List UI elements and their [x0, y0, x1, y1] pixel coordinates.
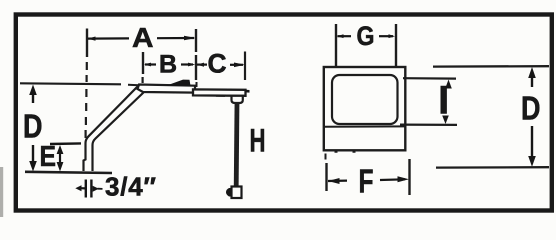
dimension D-left down arrow [32, 145, 34, 162]
clevis at arm end [232, 96, 243, 103]
scan smudge left edge [0, 167, 3, 217]
svg-text:B: B [159, 51, 177, 79]
dimension G right tick [395, 24, 397, 66]
dimension F left tick [325, 163, 327, 191]
dimension 3/4 left outward arrow [75, 185, 81, 191]
datum dashed line down to leg [84, 89, 87, 138]
foot tabs under box [336, 151, 354, 153]
svg-text:E: E [40, 141, 57, 173]
dimension F line with arrows [328, 180, 347, 183]
svg-text:C: C [208, 49, 227, 79]
separator line on box [324, 125, 405, 127]
3/4 right outward arrow [93, 186, 99, 192]
border frame [16, 15, 552, 211]
bottom reference line [25, 172, 112, 173]
dimension C line with arrows [197, 63, 207, 65]
reference line dash to arm tip [128, 84, 139, 86]
clamp wedge (solid) on arm [166, 80, 191, 86]
dimension A left tick dashed extension [85, 62, 87, 82]
svg-text:3/4″: 3/4″ [105, 172, 157, 202]
diagonal strut [84, 86, 139, 171]
hanger rod [234, 103, 240, 187]
svg-text:D: D [23, 108, 43, 145]
3/4 bar left [85, 180, 87, 198]
dimension E up arrow [57, 145, 64, 154]
tick between B and C [195, 55, 197, 80]
svg-text:D: D [521, 90, 541, 127]
dimension D-right up arrow [528, 67, 536, 78]
dimension A/B shared tick [195, 29, 197, 52]
vertical leg with foot [93, 93, 144, 172]
I lower extension line [400, 123, 457, 126]
dimension D-right down arrow [531, 126, 533, 157]
dimension D-left up arrow [29, 85, 37, 96]
D-right top reference line [433, 65, 549, 68]
dimension E top tick [50, 142, 81, 145]
dimension A left tick [86, 29, 88, 58]
dimension G line with arrows [338, 35, 352, 37]
dimension C right tick [244, 52, 246, 81]
dimension B left tick [142, 52, 144, 74]
dimension B left tick dash [142, 77, 144, 83]
3/4 bar right [90, 180, 92, 198]
svg-text:H: H [250, 123, 266, 159]
dimension E down arrow [57, 162, 64, 172]
weld dash under arm [216, 95, 225, 97]
dimension F right tick [408, 159, 410, 195]
mirror glass rounded rect [332, 75, 398, 124]
dimension A line with arrows [88, 37, 129, 39]
F left tick dash [325, 154, 327, 160]
dimension G left tick [335, 24, 337, 67]
dimension I down arrow [442, 116, 449, 125]
mirror head outer box [324, 67, 406, 150]
arm end overhang [246, 90, 250, 93]
rod bottom fitting white block [232, 187, 242, 199]
dimension B line with arrows [145, 63, 156, 65]
bracket arm section 2 (outline) [193, 89, 246, 95]
svg-text:A: A [132, 22, 154, 53]
bracket arm section 1 (outline) [138, 85, 196, 93]
D-right bottom reference line [436, 166, 549, 169]
svg-text:F: F [359, 163, 374, 200]
dimension I up arrow [445, 80, 452, 89]
reference line top of arm (D datum) [20, 83, 121, 84]
I upper extension line [403, 77, 456, 80]
rod bottom knob (solid) [226, 188, 232, 197]
svg-text:G: G [357, 21, 375, 51]
